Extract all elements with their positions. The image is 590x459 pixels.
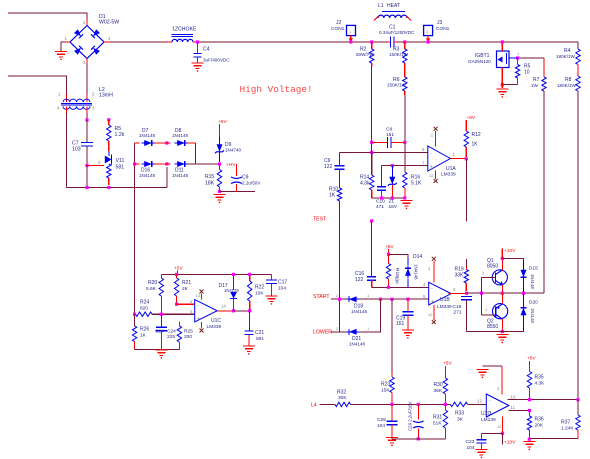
label C24: [167, 329, 176, 341]
wire rail y187: [67, 187, 167, 189]
svg-text:C18: C18: [453, 304, 462, 310]
svg-text:10: 10: [524, 70, 530, 76]
label +5V U1B: [385, 244, 394, 250]
node R5 top: [107, 118, 110, 121]
junction diodes bottom: [165, 162, 168, 165]
resistor R3: [389, 42, 409, 77]
junction R20C24: [160, 313, 163, 316]
diode D16: [139, 161, 156, 178]
transistor Q2: [482, 304, 509, 330]
svg-text:R25: R25: [184, 329, 193, 335]
diode D14: [405, 254, 422, 287]
op-amp U1A: [428, 146, 457, 178]
resistor R26: [132, 314, 149, 349]
junction Z1 bottom: [391, 196, 394, 199]
wire R32 to R33: [351, 403, 451, 405]
svg-text:R33: R33: [455, 411, 464, 417]
wire Q1 emitter: [501, 285, 503, 293]
svg-text:13: 13: [196, 293, 201, 298]
svg-text:J3: J3: [437, 20, 443, 26]
junction Q2 gnd: [501, 330, 504, 333]
svg-text:36K: 36K: [434, 388, 443, 394]
svg-text:2K: 2K: [182, 286, 189, 292]
wire R19 top: [465, 259, 467, 267]
svg-text:1N4148: 1N4148: [172, 173, 189, 178]
svg-text:C29 2.2uF/16V: C29 2.2uF/16V: [408, 401, 413, 431]
junction IGBT emitter: [501, 83, 504, 86]
resistor R6: [387, 77, 407, 95]
junction emitters: [501, 292, 504, 295]
junction J2: [349, 40, 352, 43]
wire START down to R23: [391, 299, 393, 372]
svg-text:1K: 1K: [329, 193, 336, 199]
svg-text:2.2u/50V: 2.2u/50V: [242, 181, 261, 186]
wire R6 down: [404, 95, 406, 142]
svg-text:+: +: [197, 316, 200, 322]
node LOWER pin2: [336, 326, 339, 331]
junction U1D vee: [501, 432, 504, 435]
wire +10V stub: [501, 249, 503, 259]
svg-text:1.24K: 1.24K: [561, 426, 574, 432]
label High Voltage: [240, 84, 313, 95]
wire U1A out down: [465, 159, 467, 222]
resistor R16: [403, 142, 422, 198]
transistor IGBT1: [468, 42, 520, 88]
svg-text:50W/7W: 50W/7W: [356, 52, 374, 57]
capacitor C28: [377, 404, 398, 439]
svg-text:D15: D15: [529, 266, 538, 272]
svg-text:1N4148: 1N4148: [414, 264, 419, 280]
ground at driver: [496, 335, 508, 344]
junction IGBT collector: [501, 40, 504, 43]
resistor R8: [557, 76, 580, 91]
U1D output lower: [509, 405, 530, 411]
node transformer/C7: [85, 118, 88, 121]
wire R2col between: [371, 142, 373, 152]
wire transformer pin3 down: [86, 113, 88, 120]
transistor Q1: [482, 258, 508, 285]
label +10V bottom: [504, 440, 516, 446]
label +5V top: [218, 119, 227, 125]
wire R33 to U1D: [468, 399, 487, 405]
wire R4-R8: [577, 65, 579, 77]
svg-text:R22: R22: [255, 285, 264, 291]
svg-text:R12: R12: [472, 132, 481, 138]
junction START b: [390, 298, 393, 301]
wire to C7: [86, 120, 88, 142]
svg-text:33K: 33K: [455, 273, 465, 279]
wire x371 to C16: [371, 221, 373, 277]
wire transformer pin4 down: [66, 113, 68, 188]
inductor L1 HEAT: [374, 3, 411, 21]
svg-text:R30: R30: [434, 382, 443, 388]
capacitor C17: [266, 274, 287, 295]
label +5V U1C: [174, 266, 183, 275]
svg-text:1N4148: 1N4148: [530, 308, 535, 323]
bridge rectifier D1: [65, 14, 120, 65]
diode D17: [219, 274, 240, 310]
svg-text:5.1K: 5.1K: [411, 181, 422, 187]
ground at R36: [523, 442, 535, 451]
U1A output wire: [450, 158, 466, 160]
svg-text:820: 820: [140, 306, 148, 312]
wire pin7 net: [382, 165, 428, 167]
svg-text:10: 10: [511, 395, 516, 400]
capacitor C10: [376, 166, 386, 210]
junction R36 bottom: [528, 438, 531, 441]
ground at U1C: [155, 350, 167, 359]
svg-text:R21: R21: [182, 280, 191, 286]
junction C29 bottom: [417, 437, 420, 440]
diode D20: [521, 293, 539, 331]
svg-text:GA25N120: GA25N120: [468, 59, 491, 64]
resistor R19: [455, 267, 469, 292]
svg-text:1.2k: 1.2k: [115, 132, 125, 138]
resistor R20: [146, 274, 164, 314]
J3 pin stub: [426, 36, 430, 42]
svg-text:103: 103: [72, 147, 81, 153]
resistor R10: [329, 187, 342, 202]
svg-text:LOWER: LOWER: [313, 330, 332, 336]
capacitor C24: [155, 314, 167, 349]
wire D15 rail: [502, 258, 523, 260]
node +5V U1B: [387, 253, 390, 256]
wire drive bus: [467, 292, 544, 294]
wire right bus down: [577, 91, 579, 400]
junction D15/D20: [522, 292, 525, 295]
svg-text:14: 14: [221, 304, 226, 309]
U1C power bottom: [200, 322, 204, 333]
svg-text:12: 12: [497, 424, 502, 429]
junction R30 bottom: [444, 403, 447, 406]
wire Q2 collector: [501, 319, 503, 332]
U1B power bottom: [428, 305, 436, 324]
svg-text:W02-5W: W02-5W: [99, 20, 119, 26]
svg-text:225: 225: [167, 334, 175, 340]
svg-text:1N4148: 1N4148: [530, 274, 535, 289]
wire C9 rail: [220, 191, 256, 193]
svg-text:200: 200: [184, 334, 192, 340]
junction base node: [480, 292, 483, 295]
svg-text:4.3K: 4.3K: [535, 381, 546, 387]
svg-text:+5V: +5V: [443, 361, 452, 367]
diode D9: [215, 137, 242, 162]
node HV: [218, 162, 221, 165]
svg-text:R20: R20: [148, 280, 157, 286]
J2 pin stub: [349, 36, 353, 42]
capacitor C19: [396, 299, 413, 330]
label +10V: [504, 248, 516, 254]
svg-text:30K: 30K: [338, 395, 347, 401]
resistor R7: [531, 58, 546, 91]
svg-text:+8V: +8V: [467, 115, 476, 121]
junction C29 top: [417, 403, 420, 406]
junction R3 top: [403, 40, 406, 43]
svg-text:LM139: LM139: [481, 417, 496, 423]
label +8V: [467, 115, 476, 121]
wire D18 to pin5: [359, 298, 429, 300]
svg-text:R35: R35: [535, 375, 544, 381]
wire right corner down: [195, 143, 197, 164]
svg-text:150K/1W: 150K/1W: [387, 83, 407, 88]
U1C output wire: [217, 304, 233, 311]
svg-text:R37: R37: [561, 420, 570, 426]
junction R22 top: [248, 273, 251, 276]
svg-text:4.3k: 4.3k: [360, 181, 370, 187]
resistor R15: [205, 164, 222, 192]
wire bottom rail right: [529, 437, 578, 439]
junction choke/C4: [196, 40, 199, 43]
ground at C28: [386, 438, 398, 447]
diode D18: [346, 293, 370, 314]
wire gnd rail driver: [466, 331, 523, 333]
svg-text:L4: L4: [311, 403, 317, 409]
capacitor C29: [408, 401, 424, 439]
node gate: [516, 56, 519, 59]
wire R22 to C21: [249, 311, 251, 331]
svg-text:8550: 8550: [487, 324, 498, 330]
capacitor C9: [231, 164, 261, 192]
svg-text:C28: C28: [377, 417, 386, 423]
svg-text:+10V: +10V: [504, 440, 516, 446]
svg-text:CON1: CON1: [331, 26, 345, 32]
svg-text:15K: 15K: [381, 388, 390, 394]
op-amp U1D: [481, 394, 509, 423]
svg-text:+10V: +10V: [504, 248, 516, 254]
svg-text:+: +: [430, 164, 433, 170]
wire base bus: [481, 277, 483, 315]
wire out to R22: [234, 310, 250, 312]
svg-text:LM339: LM339: [207, 324, 222, 330]
wire C1 to corner: [397, 41, 578, 43]
wire drive up: [543, 91, 545, 293]
U1A power bottom: [429, 171, 438, 184]
svg-text:104: 104: [278, 286, 286, 292]
junction R16 bottom: [403, 196, 406, 199]
svg-text:1N4148: 1N4148: [139, 173, 156, 178]
svg-text:C23: C23: [466, 439, 475, 445]
label LOWER: [313, 330, 332, 336]
diode D15: [521, 259, 539, 294]
wire top right corner: [577, 42, 579, 49]
junction D17 out: [232, 309, 235, 312]
junction R21 top: [175, 273, 178, 276]
wire U1C gnd rail: [135, 349, 180, 351]
svg-text:R32: R32: [337, 390, 346, 396]
svg-text:1ZCHOKE: 1ZCHOKE: [172, 27, 197, 33]
node R18 bottom: [387, 286, 390, 289]
svg-text:1N4740: 1N4740: [225, 148, 242, 153]
svg-text:180K/1W: 180K/1W: [556, 54, 576, 59]
wire LOWER: [331, 331, 349, 333]
resistor R37: [561, 400, 580, 439]
label HV: [226, 162, 236, 168]
svg-text:R15: R15: [205, 174, 214, 180]
resistor R32: [335, 390, 351, 407]
resistor R30: [434, 366, 448, 404]
node x371 upper: [370, 219, 373, 222]
node R15 bottom: [218, 190, 221, 193]
svg-text:LM339: LM339: [437, 304, 452, 310]
U1D power bottom: [497, 417, 503, 434]
junction C7/rail: [85, 186, 88, 189]
resistor R36: [527, 411, 544, 440]
svg-text:271: 271: [454, 310, 462, 316]
junction pin6/R14: [370, 151, 373, 154]
svg-text:1N4148: 1N4148: [349, 342, 366, 347]
wire R2 down: [371, 67, 373, 143]
junction C8 right: [403, 141, 406, 144]
svg-text:581: 581: [256, 336, 264, 342]
junction output/right bus: [576, 398, 579, 401]
U1B power top: [428, 257, 436, 283]
connector J3: [424, 20, 450, 36]
svg-text:104: 104: [377, 423, 385, 429]
ground at C4: [192, 63, 204, 72]
ground at C17: [266, 296, 278, 305]
connector J2: [331, 20, 356, 36]
svg-text:1K: 1K: [472, 142, 479, 148]
resistor R23: [381, 372, 394, 404]
thyristor V11: [98, 151, 124, 185]
wire Q2 emitter: [501, 293, 503, 303]
wire +5V stub: [219, 124, 221, 137]
svg-text:11: 11: [511, 405, 516, 410]
label +5V R30: [443, 361, 452, 367]
diode D7: [142, 140, 155, 146]
ground at IGBT: [496, 89, 508, 98]
svg-text:1N4148: 1N4148: [224, 288, 239, 293]
node +10V: [501, 257, 504, 260]
svg-text:U1C: U1C: [211, 318, 221, 324]
capacitor C18: [453, 296, 472, 331]
svg-text:3K: 3K: [457, 417, 464, 423]
svg-text:20K: 20K: [535, 423, 544, 429]
svg-text:C24: C24: [167, 329, 176, 335]
svg-text:U1B: U1B: [440, 297, 450, 303]
ground at U1D top: [477, 370, 489, 379]
junction diodes top: [165, 141, 168, 144]
resistor R5 gate: [515, 58, 530, 85]
label +6V: [527, 356, 536, 362]
capacitor C21: [244, 330, 264, 346]
inductor 1ZCHOKE: [167, 27, 198, 43]
diode D11: [172, 161, 189, 178]
svg-text:J2: J2: [336, 20, 342, 26]
ground at C21: [243, 346, 255, 355]
svg-text:3uF/400VDC: 3uF/400VDC: [203, 58, 230, 63]
svg-text:U1D: U1D: [481, 411, 491, 417]
svg-text:START: START: [313, 294, 330, 300]
junction R21 bottom: [175, 303, 178, 306]
label D7: [139, 128, 156, 138]
wire Q1 collector: [501, 259, 503, 271]
svg-text:1N4148: 1N4148: [139, 133, 156, 138]
svg-text:TEST: TEST: [313, 217, 327, 223]
wire C7 to gate node: [86, 146, 88, 166]
wire R24 to pin lower: [152, 309, 195, 314]
svg-text:180K/1W: 180K/1W: [557, 83, 577, 88]
junction R2 top: [370, 40, 373, 43]
junction U1B out: [465, 292, 468, 295]
svg-text:10K: 10K: [255, 291, 264, 297]
resistor R2: [356, 42, 374, 67]
junction U1A out: [465, 157, 468, 160]
U1A power top: [431, 127, 438, 147]
svg-text:122: 122: [355, 277, 364, 283]
node diode left bottom: [133, 162, 136, 165]
label L4: [311, 403, 317, 409]
svg-text:R36: R36: [535, 417, 544, 423]
wire U1C top rail: [161, 273, 271, 275]
wire AC input top: [8, 13, 87, 20]
resistor R35: [527, 361, 545, 400]
svg-text:12: 12: [477, 399, 482, 404]
svg-text:CON1: CON1: [436, 26, 450, 32]
svg-text:+HV: +HV: [226, 162, 236, 168]
capacitor C23: [466, 433, 503, 451]
svg-text:13mH: 13mH: [99, 93, 113, 99]
svg-text:104: 104: [467, 445, 475, 451]
svg-text:471: 471: [376, 204, 384, 210]
svg-text:12: 12: [428, 312, 433, 317]
junction R35 bottom: [528, 398, 531, 401]
U1B output wire: [448, 293, 466, 295]
junction START c: [406, 298, 409, 301]
node Z1 top: [391, 164, 394, 167]
diode D8: [172, 128, 189, 146]
junction START a: [379, 298, 382, 301]
junction V11/rail: [107, 186, 110, 189]
svg-text:+5V: +5V: [174, 266, 183, 272]
svg-text:1K: 1K: [140, 333, 147, 339]
wire D8 right: [188, 142, 196, 144]
wire left stub: [135, 163, 140, 165]
wire R10 down to START: [339, 201, 341, 332]
ground at bridge: [55, 42, 67, 60]
svg-text:U1A: U1A: [446, 166, 456, 172]
ground at R16: [401, 201, 413, 210]
resistor R5: [107, 120, 125, 151]
svg-text:+6V: +6V: [527, 356, 536, 362]
label TEST: [313, 217, 327, 223]
svg-text:10K: 10K: [395, 276, 400, 285]
svg-text:R23: R23: [381, 382, 390, 388]
junction D17 top: [232, 273, 235, 276]
svg-text:1W: 1W: [531, 83, 539, 88]
capacitor C4: [194, 42, 231, 63]
wire +10V stub bottom: [502, 433, 504, 444]
svg-text:C21: C21: [255, 330, 264, 336]
wire gate node: [518, 57, 544, 59]
svg-text:1N4148: 1N4148: [351, 309, 368, 314]
wire D21 up to START: [359, 299, 381, 332]
node diode left top: [135, 142, 140, 144]
resistor R33: [450, 402, 467, 422]
svg-text:L1: L1: [378, 3, 384, 9]
svg-text:+: +: [431, 299, 434, 305]
junction R22 bottom: [248, 309, 251, 312]
U1C power top: [196, 290, 204, 300]
op-amp U1B: [429, 282, 452, 310]
junction R23 bottom: [390, 403, 393, 406]
wire U1A pin6 net: [340, 151, 428, 153]
svg-text:12: 12: [429, 173, 434, 178]
capacitor C8: [372, 127, 405, 148]
wire bridge output: [109, 41, 167, 43]
resistor R14: [360, 152, 374, 198]
wire choke to C1: [198, 41, 389, 43]
